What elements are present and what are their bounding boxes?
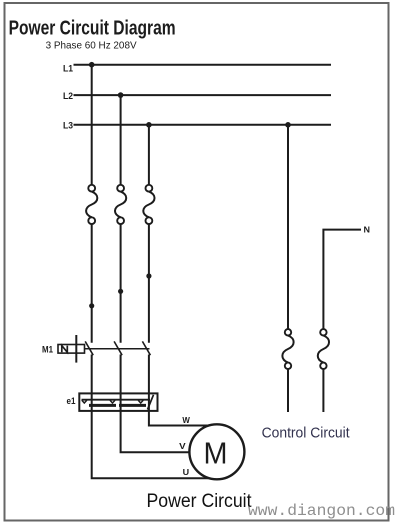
wire N bbox=[323, 230, 361, 330]
wire W bbox=[149, 411, 208, 426]
junction L3 control tap bbox=[285, 122, 291, 128]
fuse phase1 bbox=[86, 185, 97, 224]
wire V bbox=[121, 411, 190, 452]
svg-text:L2: L2 bbox=[63, 91, 73, 102]
contact M1 pole3 bbox=[142, 341, 150, 355]
wire V3 lower bbox=[148, 355, 150, 394]
wire V3 upper bbox=[148, 125, 150, 185]
junction L1-V1 bbox=[89, 62, 95, 68]
svg-text:Control Circuit: Control Circuit bbox=[262, 426, 350, 442]
svg-text:www.diangon.com: www.diangon.com bbox=[248, 502, 395, 520]
wire V2 lower bbox=[120, 355, 122, 394]
motor M circle bbox=[189, 424, 244, 479]
junction V3 bbox=[146, 273, 151, 278]
wire V1 lower bbox=[91, 355, 93, 394]
junction V1 bbox=[89, 303, 94, 308]
svg-text:L3: L3 bbox=[63, 120, 73, 131]
wire L3 bbox=[74, 124, 332, 126]
wire L2 bbox=[74, 94, 332, 96]
junction L2-V2 bbox=[118, 92, 124, 98]
wire V2 middle bbox=[120, 224, 122, 343]
wire e1 through phase1 bbox=[91, 393, 93, 411]
wire U bbox=[92, 411, 208, 478]
wire control neutral lower bbox=[322, 369, 324, 412]
wire V1 upper bbox=[91, 65, 93, 185]
wire control phase upper bbox=[287, 125, 289, 329]
fuse control phase bbox=[282, 329, 293, 369]
junction V2 bbox=[118, 289, 123, 294]
svg-text:V: V bbox=[179, 442, 186, 451]
svg-text:N: N bbox=[364, 225, 371, 235]
wire e1 through phase3 bbox=[148, 393, 150, 411]
fuse control neutral bbox=[318, 329, 329, 369]
contactor M1 link line bbox=[85, 348, 150, 350]
svg-text:U: U bbox=[183, 468, 190, 477]
wire V3 middle bbox=[148, 224, 150, 343]
contactor M1 coil box bbox=[58, 345, 85, 354]
contact M1 pole2 bbox=[114, 341, 122, 355]
fuse phase2 bbox=[115, 185, 126, 224]
svg-text:L1: L1 bbox=[63, 64, 74, 75]
wire V1 middle bbox=[91, 224, 93, 343]
fuse phase3 bbox=[143, 185, 154, 224]
wire L1 bbox=[74, 64, 332, 66]
svg-text:M: M bbox=[204, 436, 228, 471]
wire e1 through phase2 bbox=[120, 393, 122, 411]
contact M1 pole1 bbox=[85, 341, 93, 355]
svg-text:W: W bbox=[182, 416, 190, 425]
overload relay e1 box bbox=[79, 393, 157, 411]
wire control phase lower bbox=[287, 369, 289, 412]
svg-text:e1: e1 bbox=[67, 396, 76, 406]
junction L3-V3 bbox=[146, 122, 152, 128]
contactor M1 actuator line bbox=[75, 335, 77, 363]
svg-text:M1: M1 bbox=[42, 344, 54, 355]
svg-text:Power Circuit Diagram: Power Circuit Diagram bbox=[9, 17, 176, 40]
svg-text:Power Circuit: Power Circuit bbox=[147, 490, 253, 512]
svg-text:3 Phase 60 Hz 208V: 3 Phase 60 Hz 208V bbox=[46, 39, 137, 51]
wire V2 upper bbox=[120, 95, 122, 185]
